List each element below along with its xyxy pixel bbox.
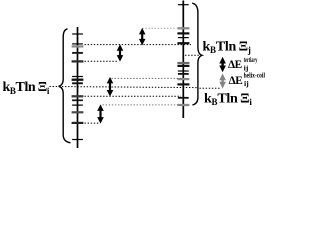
level tick i8 medium y83.3 (72, 82, 83, 84)
level tick j6 thick gray y63 (177, 62, 189, 64)
svg-text:kBTln Ξi: kBTln Ξi (204, 92, 252, 108)
level tick i3 thick gray y46.4 (72, 45, 84, 47)
dashed connector y44.6 full from ladder i to past ladder j (85, 44, 192, 46)
level tick j13 thick gray y105 (177, 104, 189, 106)
ladder j axis (right vertical line) (182, 1, 184, 119)
dashed connector y104.9 gray arrow4 to ladder j (103, 104, 182, 106)
dashed connector y61.2 ladder i to arrow2 (85, 60, 119, 62)
ladder i axis (left vertical line) (77, 27, 79, 148)
gap arrow tertiary black x222.6 y56.8-72.3 (219, 57, 226, 72)
level tick j11 thick y84.4 (177, 83, 189, 85)
level tick i13 thick y122.9 (72, 122, 84, 124)
dashed connector y55.2 ladder j to brace cusp (185, 54, 200, 56)
svg-text:ij: ij (244, 81, 249, 88)
gap arrow 1 double-headed x142 y28-45 (139, 28, 146, 46)
brace right for ladder j ranges (192, 3, 202, 105)
gap arrow 4 double-headed x100.5 y104.8-123.2 (97, 104, 104, 123)
svg-text:ΔE: ΔE (228, 59, 242, 71)
level tick j2 thick gray y28.3 (177, 27, 189, 29)
level tick i12 thick gray-black y112.3 (72, 111, 84, 113)
dashed connector short y88.2 brace to gray arrow (200, 87, 222, 89)
gap arrow 2 double-headed x120 y44.6-61.2 (117, 44, 124, 61)
level tick i5 thick dark y61.4 (72, 60, 84, 62)
level tick i7 thick y79.7 (72, 79, 84, 81)
svg-text:tertiary: tertiary (244, 57, 258, 64)
svg-text:ΔE: ΔE (229, 75, 243, 87)
level tick j9 medium y73.9 (178, 73, 189, 75)
level tick i11 thin y105.1 (72, 104, 83, 106)
level tick i6 thin y76.5 (72, 76, 83, 78)
level tick i10 medium y100.3 (72, 99, 83, 101)
level tick j8 thin y71 (178, 70, 189, 72)
level tick j7 thick y65.9 (177, 65, 189, 67)
level tick j10 thick gray y79.1 (177, 78, 189, 80)
gap arrow 3 double-headed x110 y77.3-96.2 (107, 77, 114, 97)
dashed connector long at y=87.3 from left label to gray arrow (50, 87, 198, 88)
level tick j5 thick y42.6 (177, 42, 189, 44)
svg-text:kBTln Ξj: kBTln Ξj (203, 39, 251, 55)
dashed connector y96.3 ladder i to ladder j (85, 95, 182, 97)
brace left for ladder i (59, 29, 71, 143)
dashed connector y28.3 gray from arrow1 to ladder j (142, 27, 176, 29)
level tick j3 thick y33.4 (177, 32, 189, 34)
level tick i2 thin y44 (72, 43, 83, 45)
svg-text:helix-coil: helix-coil (244, 72, 265, 79)
gap arrow helix-coil gray x222.6 y73.8-88.3 (219, 74, 226, 89)
level tick i9 thick gray-dark y96.4 (72, 95, 84, 97)
level tick i1 thin y34 (72, 33, 83, 35)
level tick j12 medium y97.8 (178, 97, 189, 99)
level tick i14 thin y139.5 (72, 139, 83, 141)
dashed connector y123.1 ladder i to arrow4 (85, 122, 100, 124)
level tick i4 medium y52.9 (72, 52, 83, 54)
svg-text:kBTln Ξi: kBTln Ξi (3, 80, 50, 96)
level tick j4 thin y37.6 (178, 37, 189, 39)
level tick j1 thin y4.7 (178, 4, 189, 6)
dashed connector y78.4 arrow3 to ladder j (112, 77, 182, 79)
